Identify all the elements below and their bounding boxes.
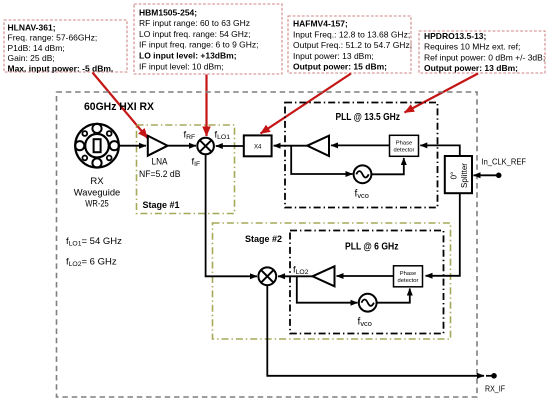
wire phase detector PD1 to amplifier A1 (331, 144, 390, 146)
svg-text:fvco: fvco (355, 189, 369, 201)
svg-text:detector: detector (394, 148, 415, 154)
phase detector PD1 (390, 135, 419, 156)
waveguide flange RX WR-25 (75, 124, 119, 168)
terminal RX_IF (485, 373, 505, 394)
amplifier A2 (PLL 6 loop amp) (313, 266, 335, 286)
svg-text:HPDRO13.5-13;: HPDRO13.5-13; (424, 31, 487, 41)
annotation box HLNAV-361 (4, 20, 127, 73)
terminal In_CLK_REF (474, 158, 527, 179)
svg-text:Output power: 15 dBm;: Output power: 15 dBm; (293, 62, 387, 72)
svg-text:Stage #1: Stage #1 (143, 200, 180, 210)
svg-text:Stage #2: Stage #2 (245, 234, 282, 244)
wire splitter to phase detector PD2 (426, 193, 460, 276)
svg-text:LNA: LNA (152, 157, 169, 168)
svg-text:P1dB: 14 dBm;: P1dB: 14 dBm; (8, 43, 65, 53)
svg-text:Gain: 25 dB;: Gain: 25 dB; (8, 53, 55, 63)
red callout arrow from HPDRO13.5-13 to PLL 13.5 GHz (405, 74, 479, 113)
svg-text:LO input freq. range: 54 GHz;: LO input freq. range: 54 GHz; (139, 29, 251, 39)
svg-text:Freq. range: 57-66GHz;: Freq. range: 57-66GHz; (8, 33, 98, 43)
svg-text:Phase: Phase (400, 271, 416, 277)
svg-text:RF input range: 60 to 63 GHz: RF input range: 60 to 63 GHz (139, 18, 250, 28)
svg-text:NF=5.2 dB: NF=5.2 dB (139, 169, 181, 180)
oscillator VCO2 (359, 294, 377, 312)
oscillator VCO1 (354, 165, 372, 183)
PLL @ 13.5 GHz box (black dash-dot) (285, 103, 438, 208)
wire A2 output feedback to VCO2 (297, 276, 358, 302)
svg-text:HAFMV4-157;: HAFMV4-157; (293, 19, 348, 29)
svg-text:IF input freq. range: 6 to 9 G: IF input freq. range: 6 to 9 GHz; (139, 40, 259, 50)
wire flange to LNA (119, 145, 146, 147)
svg-text:Input power: 13 dBm;: Input power: 13 dBm; (293, 51, 374, 61)
enclosure 60GHz HXI RX (outer dashed box) (57, 92, 478, 397)
svg-text:fvco: fvco (358, 317, 372, 329)
wire phase detector PD2 to amplifier A2 (337, 275, 394, 277)
svg-text:Splitter: Splitter (460, 163, 469, 188)
svg-text:Input Freq.: 12.8 to 13.68 GHz: Input Freq.: 12.8 to 13.68 GHz; (293, 29, 410, 39)
label RX Waveguide WR-25 (74, 176, 121, 210)
wire splitter to phase detector PD1 (420, 145, 460, 156)
annotation box HBM1505-254 (134, 4, 282, 74)
splitter 0 deg (445, 156, 472, 193)
svg-text:0°: 0° (450, 172, 459, 180)
svg-text:Max. input power: -5 dBm.: Max. input power: -5 dBm. (8, 63, 114, 73)
svg-text:Requires 10 MHz ext. ref;: Requires 10 MHz ext. ref; (424, 42, 520, 52)
phase detector PD2 (394, 266, 423, 287)
wire LNA to mixer M1 (168, 145, 196, 147)
svg-text:X4: X4 (254, 144, 262, 151)
mixer M2 (258, 267, 276, 285)
Stage #1 box (green dash-dot) (137, 125, 235, 214)
amplifier A1 (PLL 13.5 loop amp) (307, 136, 329, 156)
wire mixer M1 IF to mixer M2 (206, 154, 257, 276)
svg-text:In_CLK_REF: In_CLK_REF (482, 158, 527, 167)
svg-text:HLNAV-361;: HLNAV-361; (8, 23, 56, 33)
svg-text:WR-25: WR-25 (85, 199, 109, 210)
Stage #2 box (green dash-dot) (213, 223, 451, 339)
annotation box HPDRO13.5-13 (419, 31, 545, 73)
wire VCO1 to phase detector PD1 (371, 158, 403, 174)
amplifier LNA (148, 136, 168, 156)
svg-text:Ref input power: 0 dBm +/- 3dB: Ref input power: 0 dBm +/- 3dB; (424, 52, 545, 62)
wire A1 output feedback to VCO1 (291, 146, 352, 174)
wire PLL2 output to mixer M2 LO port (278, 275, 313, 277)
mixer M1 (197, 138, 214, 155)
PLL @ 6 GHz box (black dash-dot) (290, 231, 444, 334)
svg-text:LO input level: +13dBm;: LO input level: +13dBm; (139, 51, 237, 61)
wire PLL1 output to X4 (274, 145, 308, 147)
svg-text:IF input level: 10 dBm;: IF input level: 10 dBm; (139, 61, 224, 71)
svg-text:detector: detector (398, 278, 419, 284)
svg-text:60GHz HXI RX: 60GHz HXI RX (84, 101, 155, 113)
svg-text:Output Freq.: 51.2 to 54.7 GHz: Output Freq.: 51.2 to 54.7 GHz; (293, 40, 412, 50)
red callout arrow from HAFMV4-157 to multiplier X4 (261, 74, 352, 134)
svg-text:Phase: Phase (396, 141, 412, 147)
svg-text:HBM1505-254;: HBM1505-254; (139, 7, 197, 17)
red callout arrow from HLNAV-361 to LNA (93, 73, 148, 139)
svg-text:RX_IF: RX_IF (485, 385, 505, 394)
red callout arrow from HBM1505-254 to mixer M1 (205, 75, 207, 137)
svg-text:PLL @ 13.5 GHz: PLL @ 13.5 GHz (336, 111, 401, 123)
wire X4 to mixer M1 LO port (216, 145, 244, 147)
wire mixer M2 IF to RX_IF output (267, 285, 484, 376)
svg-text:Output power: 13 dBm;: Output power: 13 dBm; (424, 63, 518, 73)
wire VCO2 to phase detector PD2 (377, 289, 410, 303)
svg-text:RX: RX (90, 176, 104, 187)
svg-text:PLL @ 6 GHz: PLL @ 6 GHz (345, 241, 399, 253)
svg-text:Waveguide: Waveguide (74, 188, 121, 199)
multiplier X4 (244, 135, 272, 156)
annotation box HAFMV4-157 (288, 16, 412, 73)
